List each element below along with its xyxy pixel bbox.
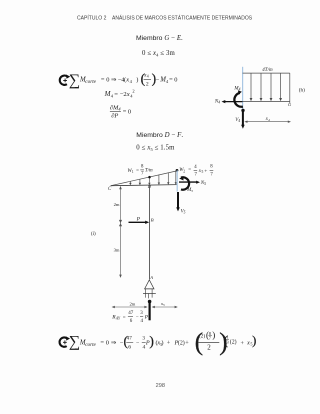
- equations block 1: [60, 71, 178, 120]
- cut line (light blue): [176, 170, 178, 191]
- bottom dimension line left (2m): [113, 306, 146, 308]
- svg-text:T/m: T/m: [145, 169, 153, 174]
- svg-text:4T/m: 4T/m: [262, 68, 273, 73]
- svg-text:298: 298: [156, 383, 165, 389]
- distributed load top line: [243, 72, 290, 74]
- svg-text:2: 2: [207, 343, 211, 351]
- svg-text:=: =: [100, 339, 104, 346]
- svg-text:2: 2: [146, 81, 149, 87]
- support base hatching: [144, 289, 146, 294]
- svg-text:(2): (2): [178, 340, 185, 347]
- svg-text:): ): [149, 334, 154, 349]
- x4 dimension line: [246, 121, 289, 123]
- svg-text:= 0: = 0: [123, 108, 131, 115]
- member C-D-F (inclined, nearly flat): [111, 185, 178, 186]
- svg-text:(i): (i): [91, 232, 96, 237]
- shear V5 arrow: [177, 192, 179, 208]
- svg-text:6: 6: [128, 344, 131, 350]
- svg-text:∂M4: ∂M4: [110, 104, 121, 111]
- page number: [156, 383, 165, 389]
- svg-text:P: P: [144, 314, 149, 320]
- svg-text:V5: V5: [181, 209, 186, 214]
- svg-text:=: =: [123, 315, 126, 320]
- svg-text:N5: N5: [200, 181, 206, 186]
- svg-text:=: =: [101, 77, 105, 84]
- moment sign circle arrow bottom: [60, 336, 70, 346]
- svg-text:C: C: [108, 187, 112, 192]
- moment sign circle arrow eq1: [60, 75, 70, 85]
- svg-text:+: +: [167, 340, 171, 347]
- svg-text:2m: 2m: [130, 302, 136, 307]
- load arrows on member: [130, 171, 175, 183]
- reaction node dot: [148, 300, 152, 304]
- reaction RAY arrow (upward): [149, 302, 151, 320]
- svg-text:x: x: [125, 77, 129, 84]
- svg-text:8: 8: [141, 164, 144, 169]
- svg-text:47: 47: [127, 336, 133, 342]
- svg-text:3m: 3m: [114, 248, 120, 253]
- svg-text:V4: V4: [235, 118, 240, 123]
- svg-text:M4: M4: [233, 86, 240, 91]
- W1 intensity dot: [148, 176, 151, 179]
- svg-text:2: 2: [183, 169, 185, 173]
- svg-text:P: P: [136, 216, 141, 222]
- axial N4 arrow: [225, 101, 243, 103]
- svg-text:(2): (2): [199, 333, 205, 340]
- svg-text:G: G: [288, 102, 292, 107]
- svg-text:⇒: ⇒: [111, 77, 116, 84]
- svg-text:8: 8: [210, 165, 213, 170]
- load right edge: [289, 73, 291, 103]
- svg-text:AY: AY: [115, 317, 121, 321]
- svg-text:B: B: [151, 217, 154, 222]
- svg-text:A: A: [149, 275, 153, 280]
- svg-text:CAPÍTULO 2 ANÁLISIS DE MARC: CAPÍTULO 2 ANÁLISIS DE MARCOS ESTÁTICAME…: [77, 15, 253, 22]
- svg-text:M5: M5: [186, 188, 193, 193]
- svg-text:0: 0: [106, 339, 109, 346]
- svg-text:4: 4: [111, 94, 114, 99]
- chain marker between 2m and 3m: [119, 220, 122, 223]
- svg-text:4: 4: [130, 79, 133, 84]
- svg-text:): ): [136, 77, 138, 84]
- svg-text:=: =: [188, 168, 191, 173]
- svg-text:−: −: [156, 77, 160, 84]
- svg-text:): ): [252, 334, 256, 348]
- svg-text:+: +: [185, 340, 189, 347]
- moment M4 arc arrow: [234, 93, 243, 107]
- svg-text:⇒: ⇒: [111, 339, 116, 346]
- section 2 heading: Miembro D - F: [136, 132, 183, 152]
- shear V4 arrow: [242, 110, 244, 125]
- pin support triangle at A: [145, 280, 154, 289]
- svg-text:7: 7: [210, 172, 213, 177]
- svg-text:): ): [212, 330, 215, 340]
- cut node dot: [241, 109, 244, 112]
- svg-text:+: +: [241, 341, 245, 347]
- W2 cut top dot: [176, 169, 179, 172]
- svg-text:−: −: [136, 341, 139, 347]
- section 1 heading: Miembro G - E: [136, 35, 183, 58]
- svg-text:+: +: [204, 168, 207, 174]
- svg-text:4: 4: [194, 165, 197, 170]
- bottom dimension line right (x5): [153, 306, 176, 308]
- diagram i : cut free body of member D-F frame: [91, 164, 213, 324]
- svg-text:): ): [161, 340, 163, 347]
- svg-text:N4: N4: [214, 99, 220, 104]
- svg-text:corte: corte: [85, 79, 96, 85]
- svg-text:x4: x4: [265, 117, 270, 122]
- svg-text:−: −: [136, 315, 139, 320]
- svg-text:∑: ∑: [69, 72, 80, 89]
- svg-text:7: 7: [195, 172, 198, 177]
- load arrow 1: [251, 73, 281, 98]
- svg-text:−2x: −2x: [120, 91, 130, 98]
- header running title: [77, 15, 253, 22]
- svg-text:0: 0: [106, 77, 109, 84]
- svg-text:6: 6: [130, 319, 133, 324]
- svg-text:(h): (h): [299, 87, 305, 94]
- svg-text:x5: x5: [160, 301, 165, 307]
- svg-text:2: 2: [132, 89, 134, 94]
- svg-text:∂P: ∂P: [111, 113, 118, 120]
- svg-text:=: =: [136, 169, 139, 174]
- main fraction bar: [199, 341, 220, 343]
- svg-text:= 0: = 0: [169, 77, 177, 84]
- beam G-E segment: [243, 101, 290, 103]
- svg-text:∑: ∑: [69, 333, 80, 350]
- cut line (light blue): [242, 67, 244, 111]
- svg-text:=: =: [114, 91, 118, 98]
- moment M5 arc arrow: [181, 177, 189, 189]
- left dimension line: [120, 188, 122, 277]
- svg-text:2m: 2m: [114, 202, 120, 207]
- svg-text:0 ≤ x4 ≤ 3m: 0 ≤ x4 ≤ 3m: [142, 50, 175, 57]
- svg-text:corte: corte: [85, 342, 96, 348]
- axial N5 arrow: [179, 181, 197, 183]
- svg-text:4: 4: [141, 319, 144, 324]
- svg-text:3: 3: [140, 311, 143, 316]
- svg-text:5: 5: [202, 170, 204, 174]
- force P arrow: [129, 221, 147, 223]
- svg-text:0 ≤ x5 ≤ 1.5m: 0 ≤ x5 ≤ 1.5m: [136, 145, 175, 152]
- svg-text:4: 4: [147, 74, 149, 78]
- svg-text:7: 7: [141, 172, 144, 177]
- svg-text:(2): (2): [230, 338, 237, 345]
- diagram h : cut free body of member G-E: [214, 67, 305, 129]
- bottom equation: [60, 329, 257, 356]
- svg-text:1: 1: [132, 170, 134, 174]
- svg-text:Miembro G − E.: Miembro G − E.: [136, 35, 183, 42]
- svg-text:Miembro D − F.: Miembro D − F.: [136, 132, 183, 139]
- svg-text:47: 47: [128, 311, 134, 316]
- distributed load top edge: [111, 171, 177, 186]
- column D-A: [149, 185, 151, 280]
- svg-text:4: 4: [130, 94, 133, 99]
